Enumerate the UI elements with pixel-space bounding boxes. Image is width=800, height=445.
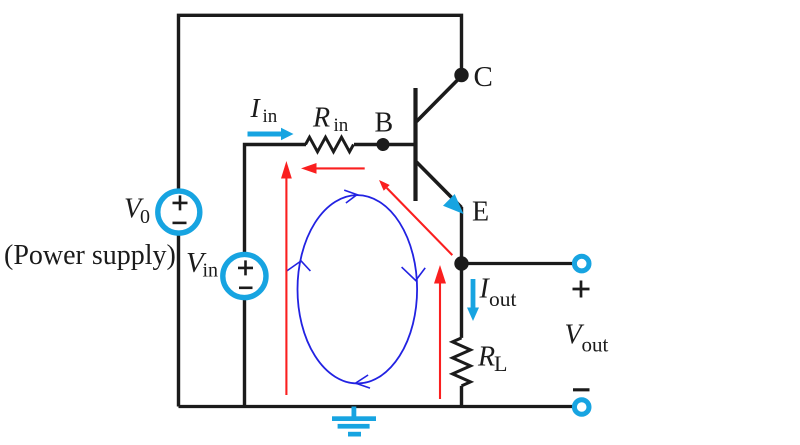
svg-text:I: I	[250, 92, 262, 123]
svg-text:R: R	[312, 103, 330, 134]
svg-text:L: L	[494, 351, 507, 376]
svg-text:E: E	[472, 197, 489, 228]
svg-text:in: in	[263, 106, 278, 127]
svg-text:(Power supply): (Power supply)	[4, 240, 176, 271]
svg-text:0: 0	[140, 206, 150, 228]
svg-text:R: R	[477, 342, 495, 373]
svg-text:out: out	[582, 333, 609, 357]
svg-text:in: in	[334, 115, 349, 136]
svg-text:out: out	[489, 287, 517, 311]
svg-text:in: in	[203, 260, 219, 282]
svg-text:B: B	[375, 107, 394, 138]
svg-text:C: C	[474, 61, 493, 93]
